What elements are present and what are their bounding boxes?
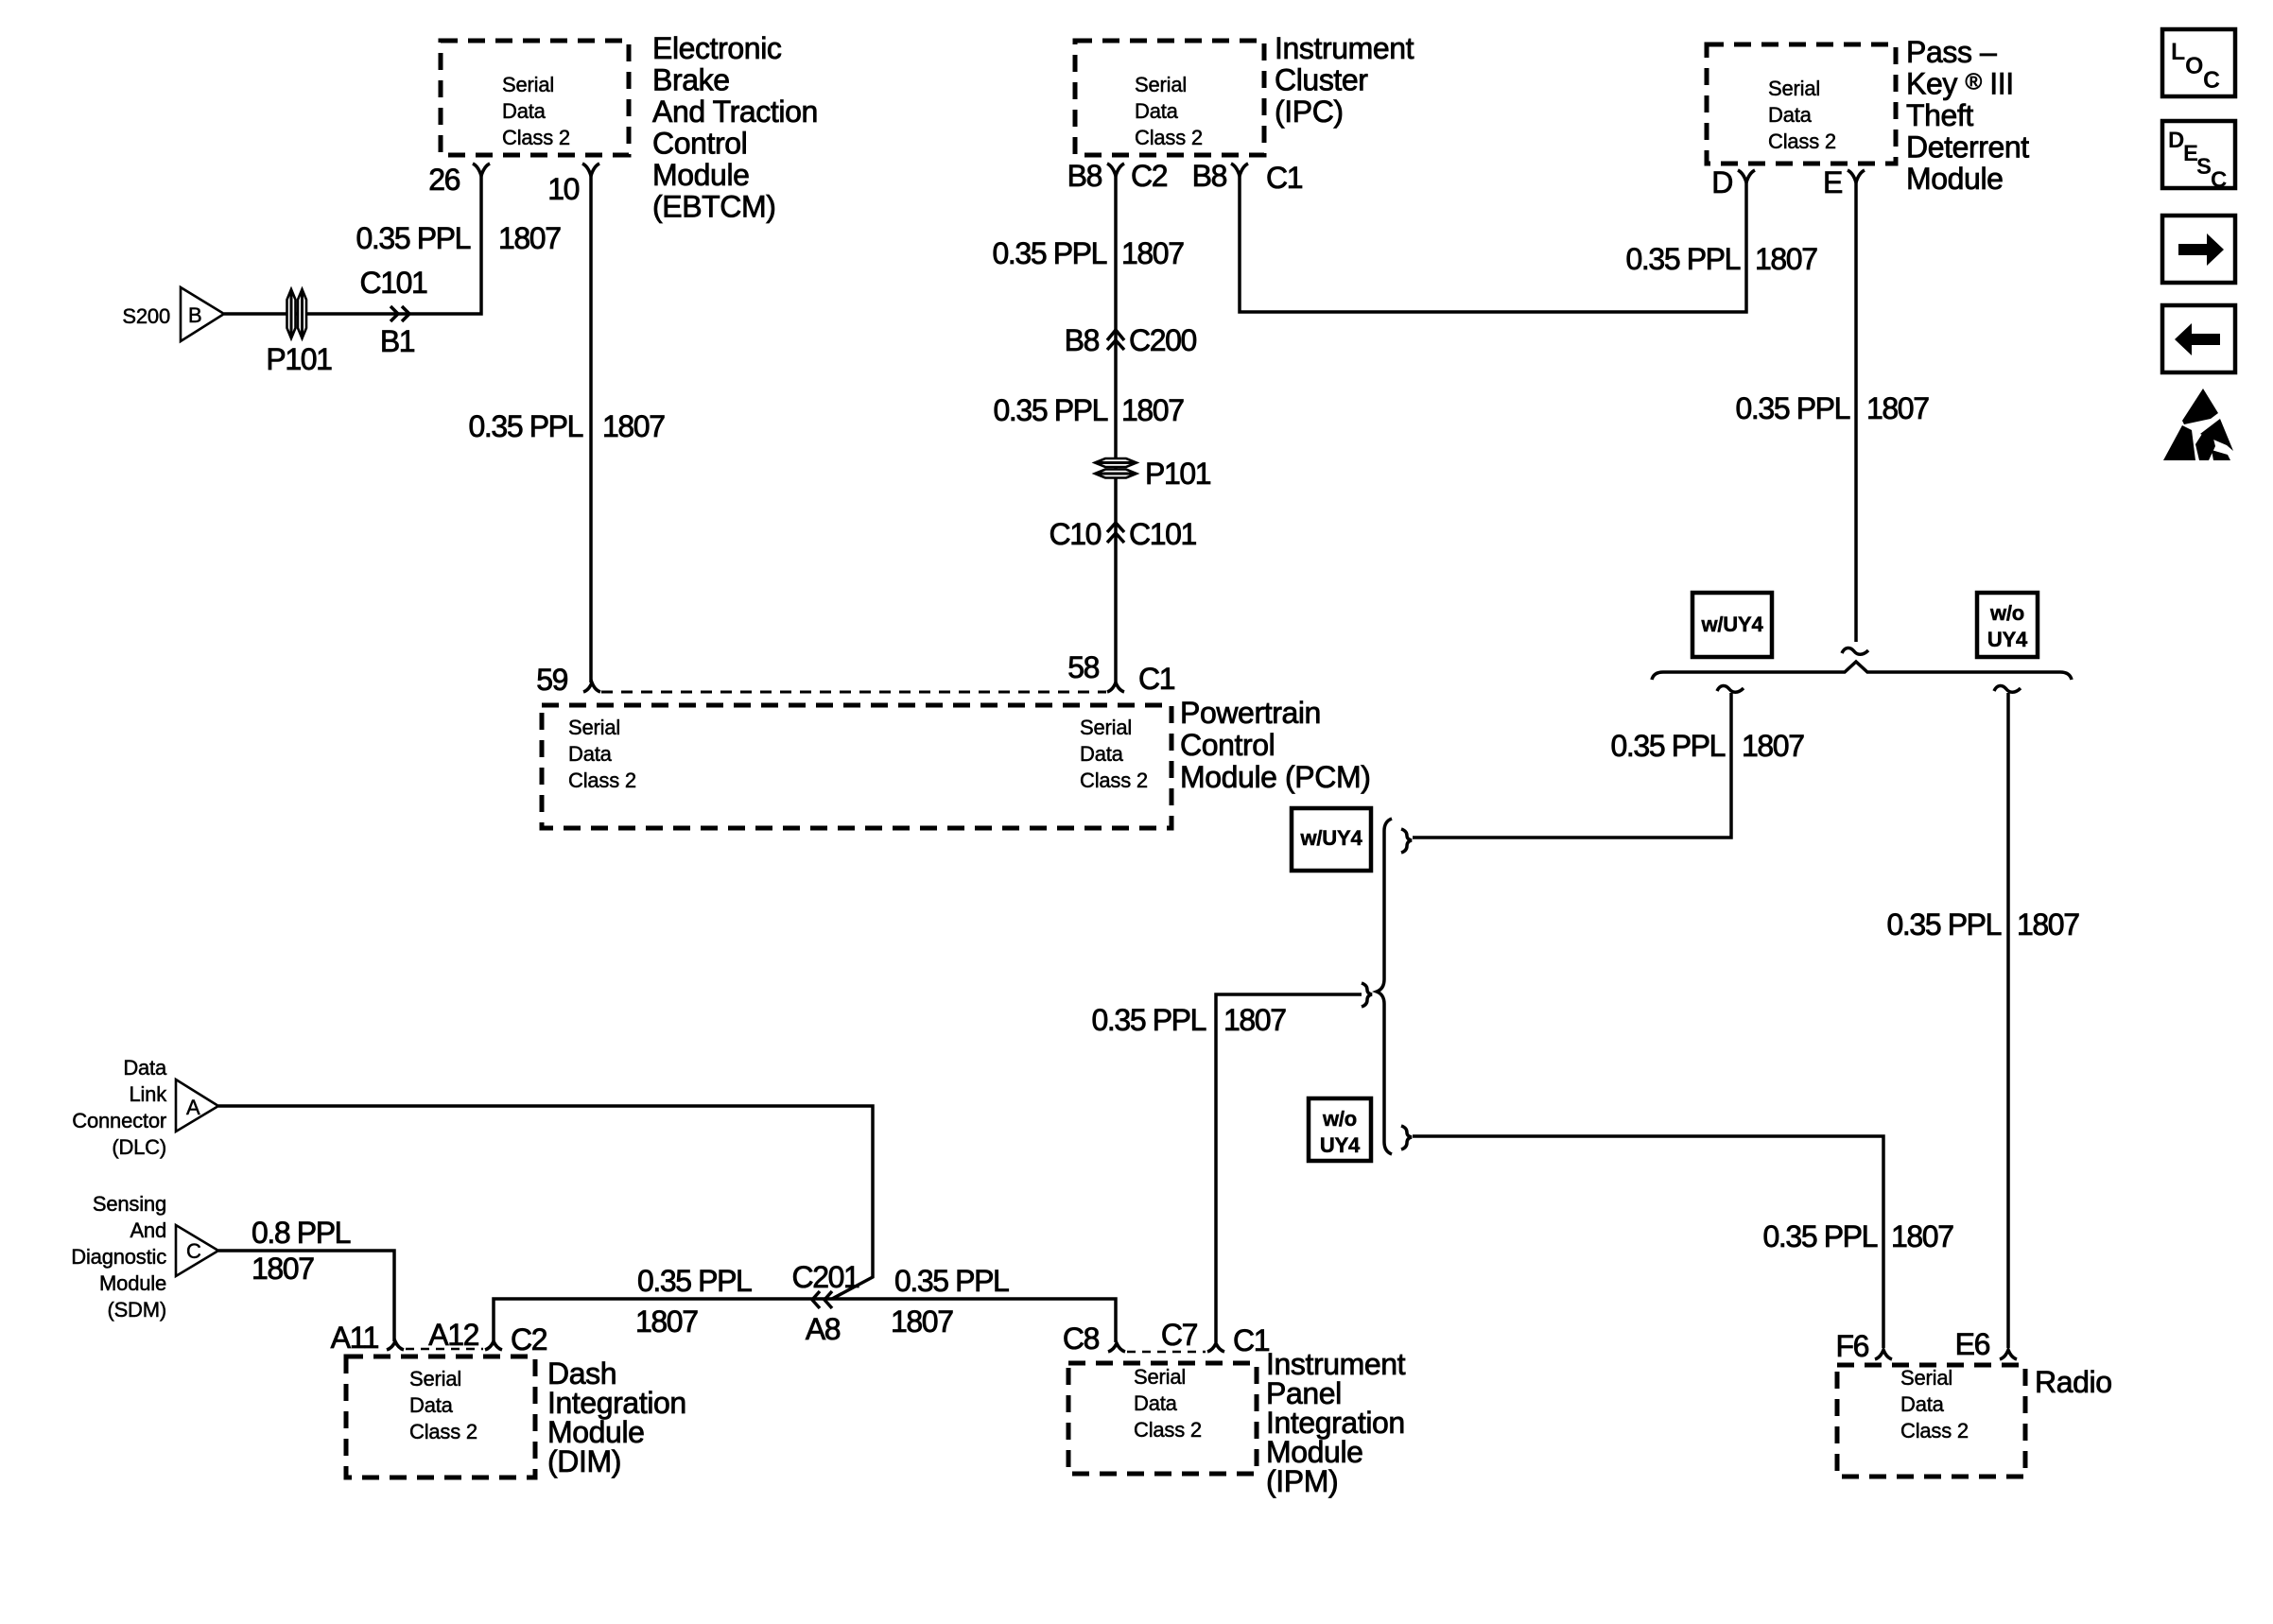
- svg-text:w/o: w/o: [1322, 1107, 1357, 1131]
- wire: S200 to pin 26 of EBTCM: [224, 172, 481, 314]
- w/UY4 option box: [1692, 593, 1772, 657]
- svg-text:(DLC): (DLC): [112, 1135, 166, 1159]
- svg-text:C: C: [2203, 67, 2220, 94]
- svg-text:Pass –: Pass –: [1906, 35, 1997, 69]
- svg-text:B: B: [188, 303, 201, 327]
- svg-text:Module (PCM): Module (PCM): [1180, 760, 1370, 794]
- svg-text:0.35 PPL: 0.35 PPL: [993, 236, 1107, 270]
- arrow-right icon box: [2162, 216, 2235, 283]
- pin A11 (DIM): [387, 1341, 404, 1350]
- svg-text:Class 2: Class 2: [1134, 1418, 1202, 1442]
- svg-text:(IPM): (IPM): [1266, 1464, 1338, 1498]
- svg-text:C101: C101: [1129, 517, 1197, 551]
- module box IPM (dashed): [1068, 1363, 1257, 1474]
- wire: middle branch from IPM C7 up to brace notch: [1216, 994, 1362, 1342]
- wire: DIM C2 up and right to C201, on to IPM C8: [494, 1299, 1116, 1342]
- svg-text:Serial: Serial: [568, 716, 620, 739]
- svg-text:1807: 1807: [1742, 729, 1804, 763]
- svg-text:F6: F6: [1835, 1329, 1868, 1363]
- svg-text:Radio: Radio: [2035, 1365, 2112, 1399]
- pin A12/C2 (DIM): [485, 1341, 502, 1350]
- svg-text:P101: P101: [1145, 457, 1211, 491]
- svg-text:C1: C1: [1266, 161, 1303, 195]
- module box Radio (dashed): [1837, 1365, 2025, 1477]
- svg-text:0.35 PPL: 0.35 PPL: [1736, 391, 1850, 425]
- svg-text:B8: B8: [1067, 159, 1102, 193]
- svg-text:B1: B1: [380, 324, 415, 358]
- module box Pass-Key (dashed): [1707, 44, 1896, 164]
- svg-text:Control: Control: [1180, 728, 1275, 762]
- LOC icon box: [2162, 29, 2235, 96]
- svg-text:Serial: Serial: [1900, 1366, 1952, 1390]
- internal net between pins C8 and C7: [1127, 1351, 1206, 1354]
- svg-text:0.35 PPL: 0.35 PPL: [356, 221, 471, 255]
- internal net between pins A11 and A12: [406, 1348, 483, 1351]
- module box EBTCM (dashed): [441, 41, 629, 155]
- svg-text:Theft: Theft: [1906, 98, 1973, 132]
- svg-text:Serial: Serial: [1135, 73, 1187, 96]
- svg-text:S: S: [2196, 154, 2212, 180]
- svg-text:Data: Data: [502, 99, 547, 123]
- svg-text:w/UY4: w/UY4: [1700, 613, 1763, 636]
- svg-text:Deterrent: Deterrent: [1906, 130, 2029, 164]
- w/o UY4 option box: [1309, 1098, 1371, 1161]
- svg-text:Diagnostic: Diagnostic: [71, 1245, 166, 1269]
- splice C (SDM triangle): [176, 1225, 218, 1276]
- connector C201 / A8 (double chevron, DLC joins here): [812, 1291, 832, 1308]
- in-line connector B8 C200 (chevron up): [1107, 330, 1124, 350]
- svg-text:D: D: [1711, 165, 1732, 199]
- svg-text:Class 2: Class 2: [568, 769, 636, 792]
- pin B8 (IPC C1): [1231, 164, 1248, 176]
- pin 58 (PCM C1): [1107, 682, 1124, 692]
- wire: left drop of brace down and left to lower brace: [1413, 693, 1731, 838]
- svg-text:A12: A12: [428, 1318, 478, 1352]
- svg-text:0.35 PPL: 0.35 PPL: [994, 393, 1108, 427]
- svg-text:Connector: Connector: [72, 1109, 166, 1132]
- svg-text:Class 2: Class 2: [1135, 126, 1203, 149]
- svg-text:1807: 1807: [635, 1304, 698, 1339]
- svg-text:Brake: Brake: [652, 63, 730, 97]
- wire: IPC B8(C2) down to PCM pin 58: [1114, 172, 1118, 682]
- svg-text:A8: A8: [806, 1312, 841, 1346]
- DESC icon box: [2162, 121, 2235, 188]
- svg-text:B8: B8: [1065, 323, 1100, 357]
- svg-text:Data: Data: [123, 1056, 167, 1080]
- wire-break tilde at end of E wire: [1842, 648, 1868, 654]
- svg-text:Link: Link: [129, 1082, 167, 1106]
- svg-text:1807: 1807: [1121, 236, 1184, 270]
- svg-text:0.35 PPL: 0.35 PPL: [1626, 242, 1741, 276]
- svg-text:(EBTCM): (EBTCM): [652, 190, 776, 224]
- svg-text:Class 2: Class 2: [1768, 130, 1836, 153]
- svg-text:0.35 PPL: 0.35 PPL: [1763, 1219, 1878, 1253]
- svg-text:C2: C2: [1131, 159, 1168, 193]
- svg-text:And: And: [130, 1218, 166, 1242]
- wire: pin 10 down to PCM pin 59: [589, 172, 593, 682]
- svg-text:26: 26: [428, 163, 460, 197]
- svg-text:Data: Data: [568, 742, 613, 766]
- pin B8 (IPC C2): [1107, 164, 1124, 176]
- svg-text:D: D: [2168, 128, 2184, 153]
- svg-text:Data: Data: [1134, 1391, 1178, 1415]
- svg-text:C8: C8: [1063, 1322, 1100, 1356]
- svg-text:0.35 PPL: 0.35 PPL: [1887, 907, 2002, 942]
- svg-text:C2: C2: [511, 1322, 547, 1356]
- svg-text:Module: Module: [99, 1271, 166, 1295]
- svg-text:58: 58: [1067, 650, 1099, 684]
- svg-text:0.35 PPL: 0.35 PPL: [1092, 1003, 1206, 1037]
- svg-text:E6: E6: [1955, 1327, 1990, 1361]
- pin 59 (PCM C1): [583, 682, 600, 692]
- pin 10 (EBTCM): [582, 164, 599, 176]
- pin F6 (Radio): [1875, 1350, 1892, 1359]
- pin C8 (IPM): [1108, 1343, 1125, 1352]
- svg-text:UY4: UY4: [1320, 1133, 1361, 1157]
- svg-text:B8: B8: [1192, 159, 1227, 193]
- svg-text:w/UY4: w/UY4: [1299, 826, 1362, 850]
- svg-text:Serial: Serial: [409, 1367, 461, 1391]
- pin 26 (EBTCM): [473, 164, 490, 176]
- svg-text:1807: 1807: [602, 409, 665, 443]
- grommet P101 (on S200 wire): [287, 289, 307, 338]
- w/o UY4 option box: [1977, 593, 2038, 657]
- svg-text:1807: 1807: [498, 221, 561, 255]
- svg-text:0.35 PPL: 0.35 PPL: [637, 1264, 752, 1298]
- svg-text:1807: 1807: [891, 1304, 953, 1339]
- svg-text:Sensing: Sensing: [93, 1192, 166, 1216]
- svg-text:(DIM): (DIM): [547, 1444, 621, 1478]
- arrow-left icon box: [2162, 305, 2235, 372]
- svg-text:C: C: [2211, 167, 2227, 193]
- svg-text:Powertrain: Powertrain: [1180, 696, 1321, 730]
- svg-text:(IPC): (IPC): [1275, 95, 1344, 129]
- svg-text:C10: C10: [1049, 517, 1101, 551]
- svg-text:0.8 PPL: 0.8 PPL: [252, 1216, 351, 1250]
- svg-text:Cluster: Cluster: [1275, 63, 1368, 97]
- svg-text:Module: Module: [1906, 162, 2004, 196]
- pin D (Pass-Key): [1738, 170, 1755, 182]
- pin E (Pass-Key): [1848, 170, 1865, 182]
- vertical brace gathering the two option branches: [1377, 819, 1392, 1154]
- svg-text:A11: A11: [331, 1321, 379, 1355]
- module box DIM (dashed): [346, 1356, 535, 1477]
- wire: bottom branch right and down to Radio pin F6: [1413, 1136, 1883, 1348]
- wire-break tilde (left drop): [1717, 685, 1744, 692]
- svg-text:Class 2: Class 2: [1900, 1419, 1969, 1443]
- svg-text:0.35 PPL: 0.35 PPL: [1611, 729, 1726, 763]
- svg-text:10: 10: [547, 172, 579, 206]
- pin E6 (Radio): [2000, 1350, 2017, 1359]
- svg-text:Serial: Serial: [1134, 1365, 1186, 1389]
- svg-text:Data: Data: [409, 1393, 454, 1417]
- wire: SDM to DIM pin A11: [218, 1251, 394, 1341]
- svg-text:1807: 1807: [252, 1252, 314, 1286]
- module box PCM (dashed): [542, 705, 1171, 828]
- svg-text:0.35 PPL: 0.35 PPL: [469, 409, 583, 443]
- wire: IPC B8(C1) right and up to Pass-Key pin D: [1240, 172, 1746, 312]
- small brace mark (bottom branch): [1401, 1126, 1412, 1149]
- svg-text:1807: 1807: [1891, 1219, 1953, 1253]
- wire: pin E down to UY4 split brace: [1854, 180, 1858, 642]
- small brace mark (middle branch): [1362, 983, 1372, 1007]
- svg-text:Control: Control: [652, 127, 747, 161]
- wire: DLC to C201 junction: [218, 1106, 873, 1299]
- module box IPC (dashed): [1075, 41, 1264, 155]
- svg-text:C201: C201: [792, 1260, 860, 1294]
- svg-text:E: E: [1823, 165, 1842, 199]
- svg-text:59: 59: [536, 663, 567, 697]
- splice S200 (triangle B): [181, 287, 224, 341]
- svg-text:Serial: Serial: [1768, 77, 1820, 100]
- svg-text:C1: C1: [1138, 662, 1175, 696]
- svg-text:Electronic: Electronic: [652, 31, 782, 65]
- svg-text:L: L: [2171, 39, 2185, 65]
- svg-text:1807: 1807: [1121, 393, 1184, 427]
- svg-text:Class 2: Class 2: [502, 126, 570, 149]
- small brace mark (top branch): [1401, 829, 1412, 853]
- svg-text:P101: P101: [266, 342, 332, 376]
- svg-text:1807: 1807: [1866, 391, 1929, 425]
- svg-text:(SDM): (SDM): [107, 1298, 166, 1322]
- svg-text:Instrument: Instrument: [1275, 31, 1414, 65]
- svg-text:Data: Data: [1900, 1392, 1945, 1416]
- svg-text:C101: C101: [360, 266, 428, 300]
- ESD warning symbol: [2163, 389, 2233, 460]
- svg-text:A: A: [186, 1096, 200, 1119]
- wire: right drop of brace down to Radio pin E6: [2006, 693, 2010, 1348]
- svg-text:O: O: [2185, 53, 2203, 79]
- svg-text:C7: C7: [1161, 1318, 1198, 1352]
- svg-text:Serial: Serial: [502, 73, 554, 96]
- svg-text:Serial: Serial: [1080, 716, 1132, 739]
- in-line connector C10 C101 (chevron up): [1107, 523, 1124, 543]
- svg-text:Class 2: Class 2: [409, 1420, 477, 1443]
- svg-text:0.35 PPL: 0.35 PPL: [894, 1264, 1009, 1298]
- w/UY4 option box: [1292, 808, 1371, 871]
- grommet P101 (on vertical wire): [1095, 458, 1136, 478]
- pin C7 (IPM C1): [1207, 1343, 1224, 1352]
- connector C101 / B1 (double chevron on wire): [390, 306, 409, 321]
- svg-text:w/o: w/o: [1989, 601, 2024, 625]
- svg-text:Data: Data: [1768, 103, 1813, 127]
- svg-text:1807: 1807: [2017, 907, 2079, 942]
- svg-text:S200: S200: [122, 304, 170, 328]
- svg-text:C200: C200: [1129, 323, 1197, 357]
- internal net between pins 59 and 58: [601, 691, 1106, 694]
- svg-text:Module: Module: [652, 158, 750, 192]
- svg-text:Data: Data: [1135, 99, 1179, 123]
- svg-text:Data: Data: [1080, 742, 1124, 766]
- svg-text:C: C: [186, 1239, 201, 1263]
- svg-text:C1: C1: [1233, 1323, 1270, 1357]
- svg-text:1807: 1807: [1755, 242, 1817, 276]
- splice A (DLC triangle): [176, 1080, 218, 1132]
- svg-text:Class 2: Class 2: [1080, 769, 1148, 792]
- svg-text:And Traction: And Traction: [652, 95, 818, 129]
- brace (over-brace splitting E wire into w/UY4 and w/o UY4): [1652, 662, 2072, 680]
- svg-text:1807: 1807: [1223, 1003, 1286, 1037]
- svg-text:UY4: UY4: [1987, 628, 2028, 651]
- svg-text:Key ® III: Key ® III: [1906, 67, 2014, 101]
- wire-break tilde (right drop): [1994, 685, 2021, 692]
